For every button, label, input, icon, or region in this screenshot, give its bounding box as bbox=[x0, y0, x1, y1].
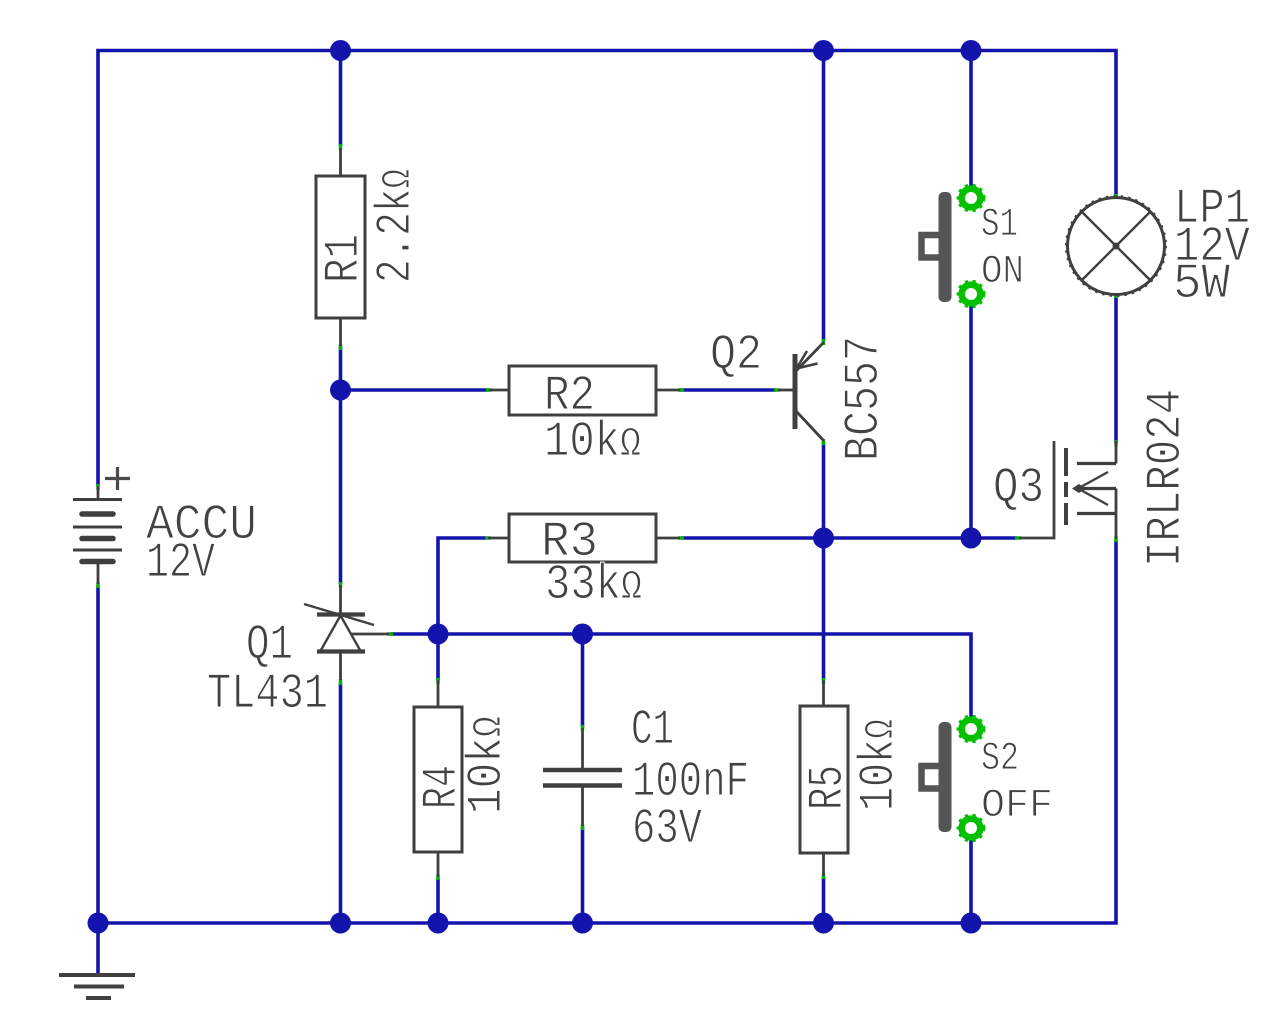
svg-text:R5: R5 bbox=[800, 765, 856, 810]
node gnd S2 bbox=[961, 913, 982, 934]
pin R2 left bbox=[486, 388, 492, 391]
svg-text:63V: 63V bbox=[632, 801, 702, 857]
node feedback R4 bbox=[428, 624, 449, 645]
node gnd R4 bbox=[428, 913, 449, 934]
pin Q3 drain bbox=[1114, 440, 1117, 446]
node gate/S1 bbox=[961, 528, 982, 549]
pin Q3 gate bbox=[1015, 536, 1021, 539]
wire S1 top bbox=[969, 51, 973, 187]
capacitor C1 bbox=[543, 728, 622, 826]
pin lamp bottom bbox=[1114, 293, 1117, 298]
wire left bottom bbox=[96, 586, 100, 973]
pin Q1 cathode bbox=[339, 582, 342, 588]
pin R1 bottom bbox=[339, 344, 342, 350]
svg-text:10kΩ: 10kΩ bbox=[544, 414, 641, 470]
pin R4 top bbox=[436, 678, 439, 684]
node feedback C1 bbox=[572, 624, 593, 645]
pin lamp top bbox=[1114, 194, 1117, 199]
pin Q2 base bbox=[774, 388, 780, 391]
pin R5 bottom bbox=[822, 873, 825, 879]
pin Q2 emitter bbox=[822, 339, 825, 345]
wire R5 top bbox=[822, 538, 826, 680]
wire C1 bottom bbox=[581, 827, 585, 923]
svg-text:OFF: OFF bbox=[981, 784, 1053, 829]
svg-text:TL431: TL431 bbox=[207, 666, 328, 722]
wire node to Q1 cathode bbox=[339, 390, 343, 584]
svg-text:IRLR024: IRLR024 bbox=[1138, 389, 1194, 567]
pin R4 bottom bbox=[436, 874, 439, 880]
pin C1 top bbox=[581, 725, 584, 731]
pin Q1 anode bbox=[339, 679, 342, 685]
node top rail Q2 emitter bbox=[813, 40, 834, 61]
wire Q1 anode down bbox=[339, 683, 343, 923]
node R1/R2/Q1 bbox=[330, 380, 351, 401]
switch S2 bbox=[922, 716, 985, 841]
svg-text:Q2: Q2 bbox=[710, 327, 762, 383]
pin R5 top bbox=[822, 678, 825, 684]
node top rail S1 bbox=[961, 40, 982, 61]
node R3/Q2c/R5 bbox=[813, 528, 834, 549]
wire S2 bottom bbox=[969, 840, 973, 923]
svg-text:BC557: BC557 bbox=[836, 336, 892, 461]
resistor R5 bbox=[800, 680, 848, 876]
wire node to R2 bbox=[341, 388, 490, 392]
wire S1 bottom bbox=[969, 306, 973, 538]
wire bottom rail bbox=[98, 540, 1116, 923]
wire R3 left corner bbox=[438, 538, 487, 634]
node gnd left bbox=[88, 913, 109, 934]
switch S1 bbox=[922, 185, 985, 307]
svg-text:Q1: Q1 bbox=[246, 617, 293, 673]
transistor Q2 BC557 bbox=[778, 342, 824, 441]
wire R5 bottom bbox=[822, 877, 826, 923]
pin battery plus bbox=[96, 484, 99, 490]
node gnd Q1 bbox=[330, 913, 351, 934]
svg-text:2.2kΩ: 2.2kΩ bbox=[368, 169, 424, 283]
wire R1 bottom to node bbox=[339, 346, 343, 390]
wire R2 to Q2 base bbox=[680, 388, 776, 392]
pin battery minus bbox=[96, 582, 99, 588]
ground bbox=[59, 975, 135, 998]
mosfet Q3 IRLR024 bbox=[1019, 441, 1116, 539]
pin C1 bottom bbox=[581, 824, 584, 830]
wire R3 row to Q3 gate bbox=[681, 536, 1017, 540]
pin Q3 source bbox=[1114, 536, 1117, 542]
node gnd C1 bbox=[572, 913, 593, 934]
wire R1 top bbox=[339, 51, 343, 147]
node top rail R1 bbox=[330, 40, 351, 61]
svg-text:10kΩ: 10kΩ bbox=[851, 719, 907, 811]
pin R1 top bbox=[339, 144, 342, 150]
wire feedback row bbox=[390, 634, 971, 719]
pin R3 right bbox=[678, 536, 684, 539]
wire R4 top bbox=[436, 634, 440, 680]
svg-text:S2: S2 bbox=[981, 737, 1019, 782]
wire Q2 emitter up bbox=[822, 51, 826, 342]
wire top rail bbox=[98, 51, 1116, 487]
wire C1 top bbox=[581, 634, 585, 727]
resistor R1 bbox=[316, 148, 365, 346]
svg-text:5W: 5W bbox=[1173, 256, 1230, 312]
svg-text:33kΩ: 33kΩ bbox=[545, 557, 642, 613]
wire Q2 collector down bbox=[822, 442, 826, 538]
resistor R3 bbox=[488, 514, 680, 562]
svg-text:Q3: Q3 bbox=[993, 460, 1044, 516]
lamp LP1 bbox=[1066, 196, 1166, 296]
svg-text:12V: 12V bbox=[146, 535, 215, 591]
svg-text:ON: ON bbox=[981, 250, 1024, 295]
resistor R2 bbox=[489, 366, 680, 415]
pin R3 left bbox=[485, 536, 491, 539]
pin Q2 collector bbox=[822, 439, 825, 445]
wire R4 bottom bbox=[436, 878, 440, 923]
resistor R4 bbox=[414, 680, 462, 877]
node gnd R5 bbox=[813, 913, 834, 934]
svg-text:S1: S1 bbox=[981, 203, 1018, 248]
wire lamp bottom to Q3 drain bbox=[1114, 295, 1118, 443]
svg-text:R1: R1 bbox=[316, 234, 372, 283]
svg-text:C1: C1 bbox=[631, 702, 674, 758]
pin Q1 ref bbox=[387, 632, 393, 635]
battery ACCU bbox=[73, 467, 130, 584]
pin R2 right bbox=[678, 388, 684, 391]
svg-text:10kΩ: 10kΩ bbox=[459, 716, 515, 814]
regulator Q1 TL431 bbox=[304, 585, 389, 680]
